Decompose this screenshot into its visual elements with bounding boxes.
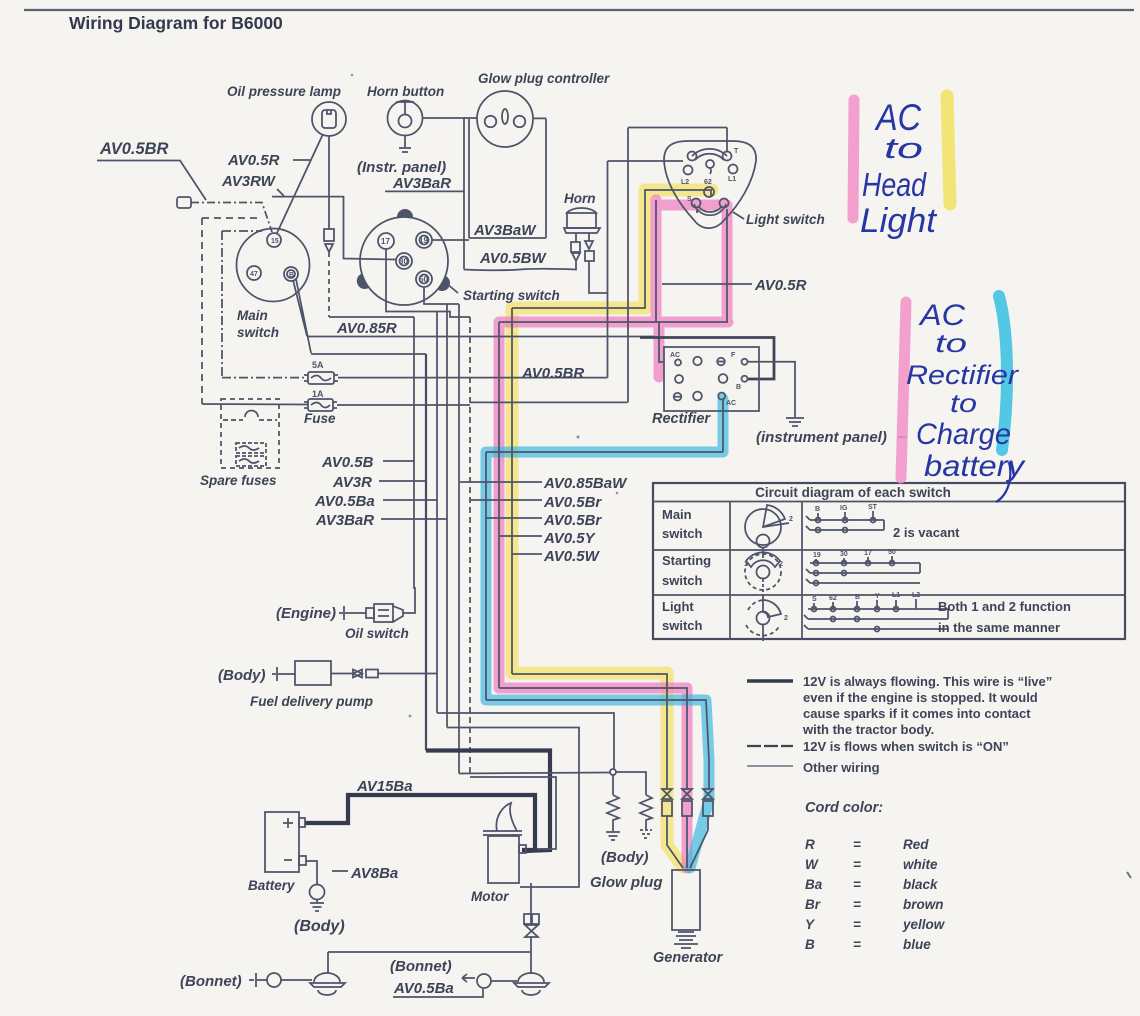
- svg-text:19: 19: [419, 236, 428, 245]
- spare fuses box: [221, 399, 279, 468]
- wire pink branch to rectifier: [659, 322, 663, 362]
- wire terminal 17 down: [386, 249, 470, 317]
- highlighter yellow wire path: [512, 190, 712, 867]
- wire AV0.85R run: [307, 336, 655, 338]
- svg-text:in the same manner: in the same manner: [938, 620, 1060, 635]
- svg-text:50: 50: [888, 549, 896, 556]
- svg-text:Horn: Horn: [564, 191, 596, 206]
- tick AV3R: [379, 480, 426, 482]
- horn: [564, 208, 600, 233]
- wire oil lamp to main switch 15: [277, 134, 323, 233]
- title rule: [24, 9, 1134, 11]
- svg-text:AV0.5Br: AV0.5Br: [543, 512, 602, 529]
- wire bonnet top run: [328, 952, 530, 973]
- highlighter cyan stroke rectifier: [999, 296, 1007, 450]
- fuel delivery pump: [272, 661, 437, 685]
- svg-text:Ba: Ba: [805, 877, 823, 892]
- legend thin line: [747, 765, 793, 767]
- svg-text:Circuit diagram of each switch: Circuit diagram of each switch: [755, 485, 951, 500]
- svg-text:L1: L1: [728, 176, 736, 183]
- svg-text:Both 1 and 2 function: Both 1 and 2 function: [938, 599, 1071, 614]
- svg-text:B: B: [855, 594, 860, 601]
- tick AV0.5Y: [499, 535, 542, 537]
- generator connector blue: [703, 789, 713, 816]
- svg-text:AV0.5R: AV0.5R: [754, 277, 807, 294]
- wire B terminal diagonals: [293, 279, 311, 353]
- svg-text:=: =: [853, 857, 861, 872]
- wire AV3BaR horizontal: [385, 190, 464, 192]
- svg-text:Motor: Motor: [471, 889, 509, 904]
- svg-text:5A: 5A: [312, 360, 324, 370]
- motor lower connector: [524, 905, 539, 974]
- svg-text:yellow: yellow: [902, 917, 946, 932]
- tick AV0.5Ba: [383, 499, 437, 501]
- svg-text:(Engine): (Engine): [276, 605, 336, 622]
- scan speck 4: [616, 492, 619, 495]
- starting switch: [354, 209, 453, 305]
- wire terminal 50 down: [424, 287, 459, 304]
- wire y352 to thick bundle: [311, 353, 426, 355]
- highlighter yellow stroke head light: [947, 96, 950, 204]
- glow plug ground right: [640, 830, 652, 838]
- svg-text:Generator: Generator: [653, 950, 724, 966]
- horn lower components: [571, 233, 594, 261]
- bundle vertical x427 thick: [425, 354, 427, 751]
- svg-text:switch: switch: [237, 325, 279, 340]
- wire 5A to light switch box: [338, 377, 608, 379]
- svg-text:cause sparks if it comes into: cause sparks if it comes into contact: [803, 706, 1031, 721]
- wire terminal 19 to glow box: [432, 239, 469, 241]
- handwriting AC to Head Light: [860, 97, 938, 240]
- bundle vertical x414: [414, 317, 415, 612]
- bundle vertical x447: [446, 304, 448, 728]
- bundle vertical x437: [436, 312, 438, 714]
- scan speck 2: [351, 74, 353, 76]
- svg-text:1: 1: [744, 561, 748, 568]
- svg-text:IG: IG: [840, 505, 848, 512]
- svg-text:Oil pressure lamp: Oil pressure lamp: [227, 84, 341, 99]
- scan speck 3: [577, 436, 580, 439]
- wire under yellow top: [512, 190, 711, 308]
- scan speck: [1127, 872, 1131, 878]
- svg-text:19: 19: [813, 552, 821, 559]
- svg-text:AV0.5BR: AV0.5BR: [99, 140, 169, 158]
- svg-text:blue: blue: [903, 937, 931, 952]
- glow plug ground left: [606, 832, 620, 840]
- wire 5A dashdot left: [222, 377, 308, 379]
- svg-text:AV0.5BW: AV0.5BW: [479, 250, 547, 267]
- wire under yellow x511: [511, 308, 513, 674]
- highlighter pink wire path: [499, 200, 728, 868]
- svg-text:AV0.85BaW: AV0.85BaW: [543, 475, 628, 492]
- wire under pink horizontal: [499, 321, 728, 323]
- wire bundle exit y727: [447, 728, 579, 888]
- cord color table: [805, 837, 946, 952]
- svg-text:S: S: [812, 596, 817, 603]
- bonnet lamp right: [514, 973, 549, 995]
- svg-text:(Instr. panel): (Instr. panel): [357, 159, 446, 176]
- svg-text:to: to: [884, 133, 923, 165]
- wire under pink left leg: [656, 200, 697, 322]
- svg-text:Main: Main: [662, 507, 692, 522]
- svg-text:47: 47: [250, 271, 258, 278]
- oil switch: [339, 604, 415, 622]
- svg-text:AV3R: AV3R: [332, 474, 372, 491]
- svg-text:(Bonnet): (Bonnet): [180, 973, 242, 990]
- svg-text:L2: L2: [912, 592, 920, 599]
- svg-text:AV3RW: AV3RW: [221, 173, 277, 190]
- switch table: [653, 483, 1125, 639]
- svg-text:Wiring Diagram for B6000: Wiring Diagram for B6000: [69, 13, 283, 33]
- svg-text:AV0.5W: AV0.5W: [543, 548, 601, 565]
- rectifier body: [664, 347, 759, 411]
- rectifier outer wire: [640, 338, 774, 380]
- wire AV8Ba: [306, 861, 317, 884]
- highlighter pink stroke rectifier: [901, 302, 906, 478]
- svg-text:switch: switch: [662, 526, 703, 541]
- svg-text:B: B: [736, 384, 741, 391]
- horn button: [388, 101, 423, 153]
- wire under pink bottom: [499, 688, 687, 790]
- motor: [483, 803, 526, 883]
- wire 1A left: [202, 403, 308, 406]
- light switch outer box: [628, 128, 727, 403]
- svg-text:(Bonnet): (Bonnet): [390, 958, 452, 975]
- svg-text:brown: brown: [903, 897, 944, 912]
- svg-text:Rectifier: Rectifier: [652, 411, 711, 427]
- svg-text:12V is always flowing. This wi: 12V is always flowing. This wire is “liv…: [803, 674, 1052, 689]
- svg-text:Fuse: Fuse: [304, 411, 336, 426]
- wire bundle exit y773: [459, 773, 610, 774]
- svg-text:AV0.5Y: AV0.5Y: [543, 530, 597, 547]
- table row labels: [662, 507, 711, 633]
- svg-text:Oil switch: Oil switch: [345, 626, 409, 641]
- svg-text:AV0.5Br: AV0.5Br: [543, 494, 602, 511]
- wire under blue x486: [485, 452, 487, 700]
- svg-text:T: T: [734, 148, 739, 155]
- light switch body: [664, 141, 756, 228]
- bundle vertical x459: [458, 304, 460, 774]
- svg-text:2: 2: [789, 516, 793, 523]
- svg-text:(Body): (Body): [218, 667, 266, 684]
- wire AV0.5BR leader: [97, 161, 206, 201]
- svg-text:50: 50: [419, 275, 428, 284]
- battery ground circle: [310, 885, 325, 900]
- legend medium line: [747, 745, 793, 747]
- bonnet lamp left: [310, 973, 345, 995]
- svg-text:15: 15: [271, 238, 279, 245]
- svg-text:12V is flows when switch is “O: 12V is flows when switch is “ON”: [803, 739, 1009, 754]
- wire bundle exit y713 to glow circle: [437, 713, 614, 769]
- svg-text:L1: L1: [892, 592, 900, 599]
- svg-text:Red: Red: [903, 837, 929, 852]
- light switch inner box: [608, 161, 684, 378]
- wire under yellow bottom: [512, 674, 667, 790]
- wire dash-dot from connector to main switch: [191, 203, 272, 233]
- wire under blue bottom: [486, 700, 709, 790]
- svg-text:(Body): (Body): [601, 849, 649, 866]
- wire AV0.5Ba underline: [393, 989, 483, 997]
- oil pressure lamp: [312, 102, 346, 136]
- svg-text:62: 62: [829, 595, 837, 602]
- wire horn button to glow box: [422, 118, 464, 270]
- svg-text:black: black: [903, 877, 939, 892]
- wire AV3RW to terminal 30: [272, 197, 396, 260]
- tick AV0.85BaW: [460, 481, 542, 483]
- svg-text:Cord color:: Cord color:: [805, 800, 883, 816]
- wire 1A right down x627: [337, 404, 470, 406]
- svg-text:L2: L2: [681, 179, 689, 186]
- svg-text:AC: AC: [670, 352, 680, 359]
- svg-text:=: =: [853, 937, 861, 952]
- svg-text:=: =: [853, 917, 861, 932]
- svg-text:Br: Br: [805, 897, 821, 912]
- svg-text:white: white: [903, 857, 938, 872]
- scan speck 5: [409, 715, 412, 718]
- main switch dash-dot enclosure: [222, 231, 262, 377]
- svg-text:Other wiring: Other wiring: [803, 760, 880, 775]
- svg-text:Light: Light: [860, 202, 938, 240]
- wire under pink x499: [498, 322, 500, 688]
- legend text 12V always: [802, 674, 1052, 737]
- svg-text:AV0.85R: AV0.85R: [336, 320, 397, 337]
- svg-text:=: =: [853, 877, 861, 892]
- svg-text:Battery: Battery: [248, 878, 296, 893]
- tick AV0.5W: [512, 553, 542, 555]
- svg-text:AC: AC: [726, 400, 736, 407]
- fuse 1A: [304, 389, 337, 411]
- svg-text:R: R: [805, 837, 815, 852]
- svg-text:AV3BaR: AV3BaR: [392, 175, 451, 192]
- wire thick bundle exit y750: [426, 751, 550, 852]
- handwriting AC to Rectifier to Charge battery: [906, 299, 1026, 502]
- generator connector yellow: [662, 789, 672, 816]
- highlighter pink stroke head light: [853, 100, 854, 218]
- svg-text:2 is vacant: 2 is vacant: [893, 525, 960, 540]
- wire AV0.5BW horn branch: [464, 262, 576, 270]
- tick AV8Ba: [332, 870, 348, 872]
- svg-text:even if the engine is stopped.: even if the engine is stopped. It would: [803, 690, 1038, 705]
- wire circle to lamp: [491, 980, 517, 982]
- main switch contacts: [806, 504, 884, 533]
- svg-text:Main: Main: [237, 308, 268, 323]
- svg-text:AV8Ba: AV8Ba: [350, 865, 398, 882]
- svg-text:Glow plug: Glow plug: [590, 874, 663, 891]
- generator: [672, 870, 700, 948]
- main switch dashed enclosure: [202, 218, 260, 404]
- bundle vertical x470 dashed: [469, 317, 471, 777]
- svg-text:AV0.5Ba: AV0.5Ba: [393, 980, 454, 997]
- dash after instrument panel: [898, 436, 907, 438]
- ground instrument panel: [786, 418, 804, 426]
- wire oil lamp down with diode: [324, 136, 414, 317]
- glow plug resistor left: [607, 795, 619, 831]
- motor wire to lower connector: [530, 883, 532, 905]
- svg-text:Horn button: Horn button: [367, 84, 444, 99]
- svg-text:W: W: [805, 857, 819, 872]
- svg-text:AV0.5B: AV0.5B: [321, 454, 374, 471]
- svg-text:AV3BaR: AV3BaR: [315, 512, 374, 529]
- svg-text:(instrument panel): (instrument panel): [756, 429, 887, 446]
- light switch contacts: [804, 592, 948, 632]
- tick AV0.5Br 2: [486, 517, 542, 519]
- main switch diagram: [745, 505, 793, 554]
- wire F to ground: [748, 362, 795, 417]
- svg-text:Glow plug controller: Glow plug controller: [478, 71, 610, 86]
- starting switch diagram: [744, 552, 783, 596]
- svg-text:1A: 1A: [312, 389, 324, 399]
- svg-text:Light: Light: [662, 599, 694, 614]
- svg-text:B: B: [289, 272, 294, 279]
- svg-text:AV0.5R: AV0.5R: [227, 152, 280, 169]
- svg-text:30: 30: [840, 551, 848, 558]
- svg-text:2: 2: [779, 561, 783, 568]
- tick AV0.5R right: [662, 283, 752, 285]
- wire under blue rectifier leg: [486, 400, 723, 452]
- light switch diagram: [746, 596, 788, 641]
- wires into generator: [667, 816, 708, 868]
- svg-text:Spare fuses: Spare fuses: [200, 473, 277, 488]
- svg-text:30: 30: [399, 257, 408, 266]
- svg-text:switch: switch: [662, 618, 703, 633]
- svg-text:to: to: [935, 328, 967, 358]
- svg-text:17: 17: [864, 550, 872, 557]
- legend thick line: [747, 679, 793, 683]
- wire AV15Ba thick: [305, 795, 535, 850]
- highlighter blue wire path: [486, 399, 723, 868]
- svg-text:2: 2: [784, 615, 788, 622]
- svg-text:S: S: [687, 196, 692, 203]
- starting switch contacts: [806, 549, 920, 586]
- bonnet left terminal: [249, 973, 312, 987]
- glow plug terminal circle: [610, 769, 616, 775]
- svg-text:=: =: [853, 837, 861, 852]
- svg-text:(Body): (Body): [294, 918, 345, 935]
- fuse 5A: [304, 360, 338, 384]
- svg-text:AV15Ba: AV15Ba: [356, 778, 413, 795]
- svg-text:17: 17: [381, 237, 390, 246]
- svg-text:=: =: [853, 897, 861, 912]
- arrow to circle: [462, 974, 475, 982]
- svg-text:Y: Y: [875, 593, 880, 600]
- connector top-left: [177, 197, 191, 208]
- glow plug wiring: [613, 772, 646, 795]
- pointer starting switch: [446, 283, 458, 293]
- wire box bottom under AV0.5BR: [470, 401, 628, 403]
- pointer light switch: [733, 212, 744, 219]
- wire horn right branch down: [589, 261, 608, 293]
- svg-text:AV3BaW: AV3BaW: [473, 222, 537, 239]
- svg-text:Charge: Charge: [916, 418, 1011, 451]
- svg-text:F: F: [731, 352, 736, 359]
- battery: [265, 812, 306, 872]
- pointer AV0.5R: [293, 159, 310, 161]
- tick AV0.5Br 1: [470, 499, 542, 501]
- svg-text:ST: ST: [868, 504, 878, 511]
- main switch: [237, 229, 310, 302]
- svg-text:Head: Head: [862, 166, 927, 203]
- wire bundle exit y777: [470, 777, 556, 849]
- glow plug controller: [477, 91, 533, 147]
- svg-text:AV0.5BR: AV0.5BR: [521, 365, 584, 382]
- svg-text:AC: AC: [874, 97, 921, 138]
- tick AV0.5B: [383, 460, 414, 462]
- generator connector pink: [682, 789, 692, 816]
- svg-text:with the tractor body.: with the tractor body.: [802, 722, 934, 737]
- tick AV3BaR: [381, 518, 447, 520]
- svg-text:Rectifier: Rectifier: [906, 360, 1019, 390]
- svg-text:B: B: [805, 937, 815, 952]
- glow plug resistor right: [640, 795, 652, 829]
- wire under pink right leg: [726, 209, 728, 322]
- svg-text:Fuel delivery pump: Fuel delivery pump: [250, 694, 373, 709]
- svg-text:Light switch: Light switch: [746, 212, 825, 227]
- svg-text:B: B: [815, 506, 820, 513]
- svg-text:Starting switch: Starting switch: [463, 288, 560, 303]
- battery ground: [310, 900, 324, 911]
- svg-text:AV0.5Ba: AV0.5Ba: [314, 493, 375, 510]
- svg-text:to: to: [950, 388, 977, 418]
- svg-text:switch: switch: [662, 573, 703, 588]
- svg-text:62: 62: [704, 179, 712, 186]
- glow controller wiring box: [464, 118, 546, 238]
- svg-text:Starting: Starting: [662, 553, 711, 568]
- bonnet right terminal circle: [477, 974, 491, 988]
- pointer AV3RW: [277, 189, 284, 196]
